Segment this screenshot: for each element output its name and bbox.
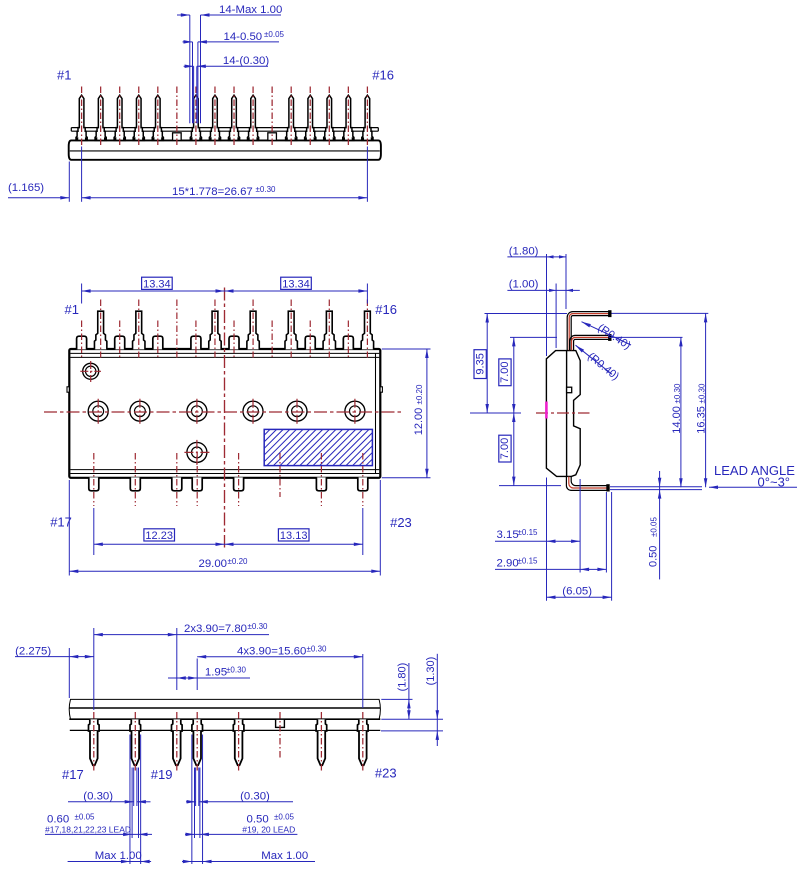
bottom view: pin #23 shoulder and lead xyxy=(358,719,369,765)
top view: centerline of pin position #15 xyxy=(347,87,349,147)
plan view: centerline of bottom pin position #21 xyxy=(238,453,240,506)
svg-text:7.00: 7.00 xyxy=(499,438,511,459)
side view: magenta gate mark xyxy=(545,402,548,419)
top view: pin #9 xyxy=(228,95,239,140)
top view: pin #5 xyxy=(152,95,163,140)
side view: package body profile xyxy=(546,351,580,477)
plan view: left edge gate notch xyxy=(67,387,69,392)
svg-text:#23: #23 xyxy=(375,766,397,781)
svg-text:±0.15: ±0.15 xyxy=(518,528,539,537)
top view: pin #2 xyxy=(95,95,106,140)
plan view: heatsink hatch area xyxy=(227,429,402,465)
plan view: overall width dimension 29.00±0.20 xyxy=(69,480,380,576)
top view: centerline of pin position #5 xyxy=(157,87,159,147)
svg-text:(6.05): (6.05) xyxy=(562,585,592,597)
top view: package body (side elevation) xyxy=(69,140,381,159)
top view: pin #12 xyxy=(286,95,297,140)
svg-text:#23: #23 xyxy=(390,515,412,530)
svg-text:(1.00): (1.00) xyxy=(509,279,539,291)
top view: pin rail lines xyxy=(71,128,378,132)
top view: centerline of pin position #6 xyxy=(176,87,178,147)
svg-text:3.15: 3.15 xyxy=(497,529,519,541)
side view: dimension 0.50±0.05 xyxy=(648,471,662,579)
svg-text:#16: #16 xyxy=(372,67,394,82)
svg-text:±0.30: ±0.30 xyxy=(248,622,269,631)
top view: mold tab at empty position #6 xyxy=(173,133,182,141)
bottom view: centerline of pin position #18 xyxy=(134,712,136,772)
bottom view: centerline of pin position #21 xyxy=(238,712,240,772)
side view: front-face gate notch xyxy=(567,387,572,393)
top view: centerline of pin position #8 xyxy=(214,87,216,147)
bottom view: pin #18 shoulder and lead xyxy=(130,719,141,765)
plan view: centerline of bottom pin position #20 xyxy=(196,453,198,506)
plan view: bottom pin stub #17 xyxy=(89,477,99,490)
side view: radius callout (R0.40) lower xyxy=(576,345,622,383)
svg-text:±0.20: ±0.20 xyxy=(415,384,424,405)
top view: centerline of pin position #1 xyxy=(81,87,83,147)
bottom view: dimension 4x3.90=15.60±0.30 xyxy=(197,644,363,708)
plan view: centerline of top pin position #5 xyxy=(157,321,159,358)
plan view: height dimension 12.00±0.20 xyxy=(382,349,431,478)
svg-text:1.95: 1.95 xyxy=(205,667,227,679)
bottom view: mold tab at empty position xyxy=(276,719,285,727)
plan view: centerline of top pin position #16 xyxy=(366,300,368,358)
top view: centerline of pin position #7 xyxy=(195,87,197,147)
bottom view: centerline of pin position #22 xyxy=(320,712,322,772)
svg-text:±0.15: ±0.15 xyxy=(518,556,539,565)
side view: radius callout (R0.40) upper xyxy=(582,322,633,352)
plan view: package body outline xyxy=(69,349,380,478)
plan view: centerline of bottom pin position #19 xyxy=(176,453,178,506)
bottom view: lead dimensions for pin #18 ((0.30), 0.60±0.05, Max 1.00) xyxy=(45,735,152,865)
side view: dimension 9.35 (boxed) xyxy=(470,314,567,414)
bottom view: centerline of pin position #19 xyxy=(176,712,178,772)
plan view: mounting hole H1 xyxy=(88,399,108,424)
plan view: centerline of top pin position #12 xyxy=(290,300,292,358)
top view: pin #3 xyxy=(114,95,125,140)
svg-text:(1.80): (1.80) xyxy=(397,663,409,692)
top view: lead width callout dimension 14-(0.30) xyxy=(184,55,270,123)
side view: dimension (1.00) xyxy=(507,279,579,348)
plan view: centerline of bottom pin position #18 xyxy=(134,453,136,506)
svg-text:(1.165): (1.165) xyxy=(8,182,44,194)
plan view: centerline of bottom pin position #empty xyxy=(279,453,281,497)
plan view: long pin #2 xyxy=(94,311,106,349)
top view: pin #8 xyxy=(209,95,220,140)
svg-text:13.34: 13.34 xyxy=(282,278,310,290)
plan view: centerline of top pin position #10 xyxy=(252,300,254,358)
side view: dimension (6.05) xyxy=(547,492,612,601)
svg-text:Max 1.00: Max 1.00 xyxy=(261,850,308,862)
svg-text:#1: #1 xyxy=(65,302,79,317)
side view: dimension 16.35±0.30 xyxy=(612,313,709,487)
bottom view: pin #20 shoulder and lead xyxy=(192,719,203,765)
svg-text:Max 1.00: Max 1.00 xyxy=(95,850,142,862)
svg-text:±0.05: ±0.05 xyxy=(264,30,285,39)
svg-text:0°~3°: 0°~3° xyxy=(758,475,790,490)
plan view: centerline of top pin position #2 xyxy=(100,300,102,358)
top view: pin #15 xyxy=(343,95,354,140)
plan view: long pin #16 xyxy=(361,311,373,349)
bottom view: centerline of pin position #20 xyxy=(196,712,198,772)
svg-text:13.13: 13.13 xyxy=(280,530,308,542)
side view: dimension (1.80) xyxy=(507,245,566,356)
plan view: centerline of top pin position #11 xyxy=(271,321,273,358)
svg-text:0.50: 0.50 xyxy=(648,546,660,567)
plan view: centerline of bottom pin position #17 xyxy=(93,453,95,506)
plan view: mounting hole H5 xyxy=(287,399,307,424)
top view: centerline of pin position #3 xyxy=(119,87,121,147)
svg-text:#17,18,21,22,23 LEAD: #17,18,21,22,23 LEAD xyxy=(45,824,131,834)
plan view: bottom pin stub #18 xyxy=(130,477,140,490)
plan view: centerline of top pin position #6 xyxy=(176,300,178,358)
plan view: short pin stub #5 xyxy=(153,336,163,349)
top view: pin #7 xyxy=(190,95,201,140)
svg-text:±0.20: ±0.20 xyxy=(228,557,249,566)
plan view: long pin #8 xyxy=(209,311,221,349)
top view: overall pin span dimension 15*1.778=26.67±0.30 and (1.165) xyxy=(8,147,367,202)
top view: pin #14 xyxy=(324,95,335,140)
svg-text:29.00: 29.00 xyxy=(199,558,228,570)
plan view: short pin stub #1 xyxy=(77,336,87,349)
plan view: short pin stub #7 xyxy=(191,336,201,349)
bottom view: dimension 2x3.90=7.80±0.30 xyxy=(94,622,269,710)
plan view: mounting hole H2 xyxy=(130,399,150,424)
svg-text:16.35: 16.35 xyxy=(695,406,707,434)
plan view: dimension 13.13 (boxed) xyxy=(224,529,362,546)
plan view: centerline of top pin position #7 xyxy=(195,321,197,358)
top view: centerline of pin position #11 xyxy=(271,87,273,147)
plan view: long pin #10 xyxy=(247,311,259,349)
svg-text:14-(0.30): 14-(0.30) xyxy=(223,55,269,67)
plan view: pin 1 index mark circle xyxy=(80,361,101,382)
svg-text:#16: #16 xyxy=(375,302,397,317)
bottom view: shoulder plane line xyxy=(70,729,381,731)
svg-text:(0.30): (0.30) xyxy=(83,790,113,802)
plan view: bottom pin stub #21 xyxy=(234,477,244,490)
bottom view: pin #17 shoulder and lead xyxy=(89,719,100,765)
top view: mold tab at empty position #11 xyxy=(268,133,277,141)
svg-text:±0.30: ±0.30 xyxy=(697,383,706,404)
plan view: dimension 13.34 right (boxed) xyxy=(224,277,367,293)
svg-text:4x3.90=15.60: 4x3.90=15.60 xyxy=(237,645,306,657)
plan view: right edge gate notch xyxy=(380,387,382,392)
plan view: centerline of bottom pin position #22 xyxy=(320,453,322,506)
plan view: bottom pin stub #20 xyxy=(192,477,202,490)
svg-text:±0.30: ±0.30 xyxy=(673,383,682,404)
svg-text:(2.275): (2.275) xyxy=(15,645,51,657)
plan view: long pin #12 xyxy=(285,311,297,349)
bottom view: centerline of pin position #17 xyxy=(93,712,95,772)
side view: upper lead (row 1) with bend xyxy=(567,311,611,351)
svg-text:±0.30: ±0.30 xyxy=(307,644,328,653)
plan view: long pin #14 xyxy=(323,311,335,349)
plan view: centerline of top pin position #1 xyxy=(81,321,83,358)
svg-text:15*1.778=26.67: 15*1.778=26.67 xyxy=(172,186,253,198)
top view: lead width callout dimension 14-0.50±0.05 xyxy=(183,30,285,123)
svg-text:#1: #1 xyxy=(57,67,71,82)
top view: centerline of pin position #10 xyxy=(252,87,254,147)
bottom view: pin #19 shoulder and lead xyxy=(172,719,183,765)
top view: centerline of pin position #9 xyxy=(233,87,235,147)
plan view: bottom pin stub #23 xyxy=(358,477,368,490)
plan view: mounting hole H6 xyxy=(345,399,365,424)
svg-text:14-Max 1.00: 14-Max 1.00 xyxy=(219,4,282,16)
plan view: centerline of top pin position #4 xyxy=(138,300,140,358)
top view: centerline of pin position #4 xyxy=(138,87,140,147)
svg-text:14.00: 14.00 xyxy=(671,406,683,434)
plan view: horizontal center axis xyxy=(44,411,401,413)
side view: dimension 14.00±0.30 xyxy=(612,337,683,487)
top view: centerline of pin position #14 xyxy=(328,87,330,147)
plan view: lower hole H7 xyxy=(184,440,209,465)
plan view: bottom pin stub #19 xyxy=(172,477,182,490)
plan view: bottom pin stub #22 xyxy=(316,477,326,490)
top view: centerline of pin position #16 xyxy=(366,87,368,147)
bottom view: centerline of pin position #empty xyxy=(279,712,281,760)
svg-text:2x3.90=7.80: 2x3.90=7.80 xyxy=(184,623,247,635)
side view: lead thickness extension lines xyxy=(610,487,702,490)
bottom view: dimension (1.30) vertical xyxy=(381,654,443,746)
bottom view: pin #22 shoulder and lead xyxy=(316,719,327,765)
side view: bottom lead (row 3) with bend xyxy=(566,477,609,491)
top view: pin #4 xyxy=(133,95,144,140)
svg-text:#19, 20 LEAD: #19, 20 LEAD xyxy=(242,824,295,834)
plan view: long pin #4 xyxy=(133,311,145,349)
bottom view: pin #21 shoulder and lead xyxy=(233,719,244,765)
svg-text:(R0.40): (R0.40) xyxy=(585,351,621,383)
svg-text:12.00: 12.00 xyxy=(413,408,425,436)
top view: pin #13 xyxy=(305,95,316,140)
plan view: centerline of top pin position #14 xyxy=(328,300,330,358)
svg-text:(1.80): (1.80) xyxy=(509,245,539,257)
bottom view: centerline of pin position #23 xyxy=(362,712,364,772)
svg-text:12.23: 12.23 xyxy=(145,530,173,542)
svg-text:±0.05: ±0.05 xyxy=(274,812,295,821)
svg-text:13.34: 13.34 xyxy=(143,278,171,290)
plan view: centerline of top pin position #8 xyxy=(214,300,216,358)
bottom view: dimension (1.80) vertical xyxy=(381,663,443,720)
side view: lead angle note xyxy=(709,463,797,490)
svg-text:#17: #17 xyxy=(50,514,72,529)
plan view: centerline of bottom pin position #23 xyxy=(362,453,364,506)
svg-text:9.35: 9.35 xyxy=(474,353,486,374)
plan view: vertical center axis xyxy=(223,288,225,548)
side view: middle lead (row 2) with bend xyxy=(570,335,611,351)
plan view: short pin stub #3 xyxy=(115,336,125,349)
bottom view: lead dimensions for pin #20 ((0.30), 0.50±0.05, Max 1.00) xyxy=(182,735,315,865)
bottom view: dimension (2.275) xyxy=(15,645,94,698)
svg-text:#19: #19 xyxy=(151,767,173,782)
side view: dimension 2.90±0.15 xyxy=(495,492,606,573)
top view: pin #1 xyxy=(76,95,87,140)
top view: centerline of pin position #12 xyxy=(290,87,292,147)
plan view: short pin stub #9 xyxy=(229,336,239,349)
bottom view: dimension 1.95±0.30 xyxy=(168,666,250,680)
plan view: centerline of top pin position #3 xyxy=(119,321,121,358)
svg-text:±0.30: ±0.30 xyxy=(226,666,247,675)
plan view: mounting hole H4 xyxy=(243,399,263,424)
svg-text:(0.30): (0.30) xyxy=(240,790,270,802)
svg-text:±0.05: ±0.05 xyxy=(75,812,96,821)
top view: pin #10 xyxy=(247,95,258,140)
top view: lead width callout dimension 14-Max 1.00 xyxy=(177,4,282,123)
top view: pin #16 xyxy=(362,95,373,140)
svg-text:#17: #17 xyxy=(62,767,84,782)
plan view: centerline of top pin position #13 xyxy=(309,321,311,358)
plan view: dimension 12.23 (boxed) xyxy=(94,508,363,555)
svg-text:±0.05: ±0.05 xyxy=(650,516,659,537)
side view: dimension 7.00 upper (boxed) xyxy=(499,337,557,413)
top view: centerline of pin position #13 xyxy=(309,87,311,147)
svg-text:7.00: 7.00 xyxy=(499,361,511,382)
plan view: dimension 13.34 left (boxed) xyxy=(82,277,368,303)
plan view: short pin stub #13 xyxy=(305,336,315,349)
plan view: centerline of top pin position #15 xyxy=(347,321,349,358)
top view: centerline of pin position #2 xyxy=(100,87,102,147)
svg-text:±0.30: ±0.30 xyxy=(256,185,277,194)
side view: dimension 3.15±0.15 xyxy=(495,478,580,601)
svg-text:2.90: 2.90 xyxy=(497,557,519,569)
bottom view: package body bar xyxy=(69,699,380,719)
svg-text:14-0.50: 14-0.50 xyxy=(224,31,263,43)
side view: dimension 7.00 lower (boxed) xyxy=(499,413,561,486)
plan view: short pin stub #15 xyxy=(343,336,353,349)
side view: horizontal center axis xyxy=(536,412,590,414)
plan view: mounting hole H3 xyxy=(187,399,207,424)
svg-text:(1.30): (1.30) xyxy=(425,657,437,686)
plan view: centerline of top pin position #9 xyxy=(233,321,235,358)
